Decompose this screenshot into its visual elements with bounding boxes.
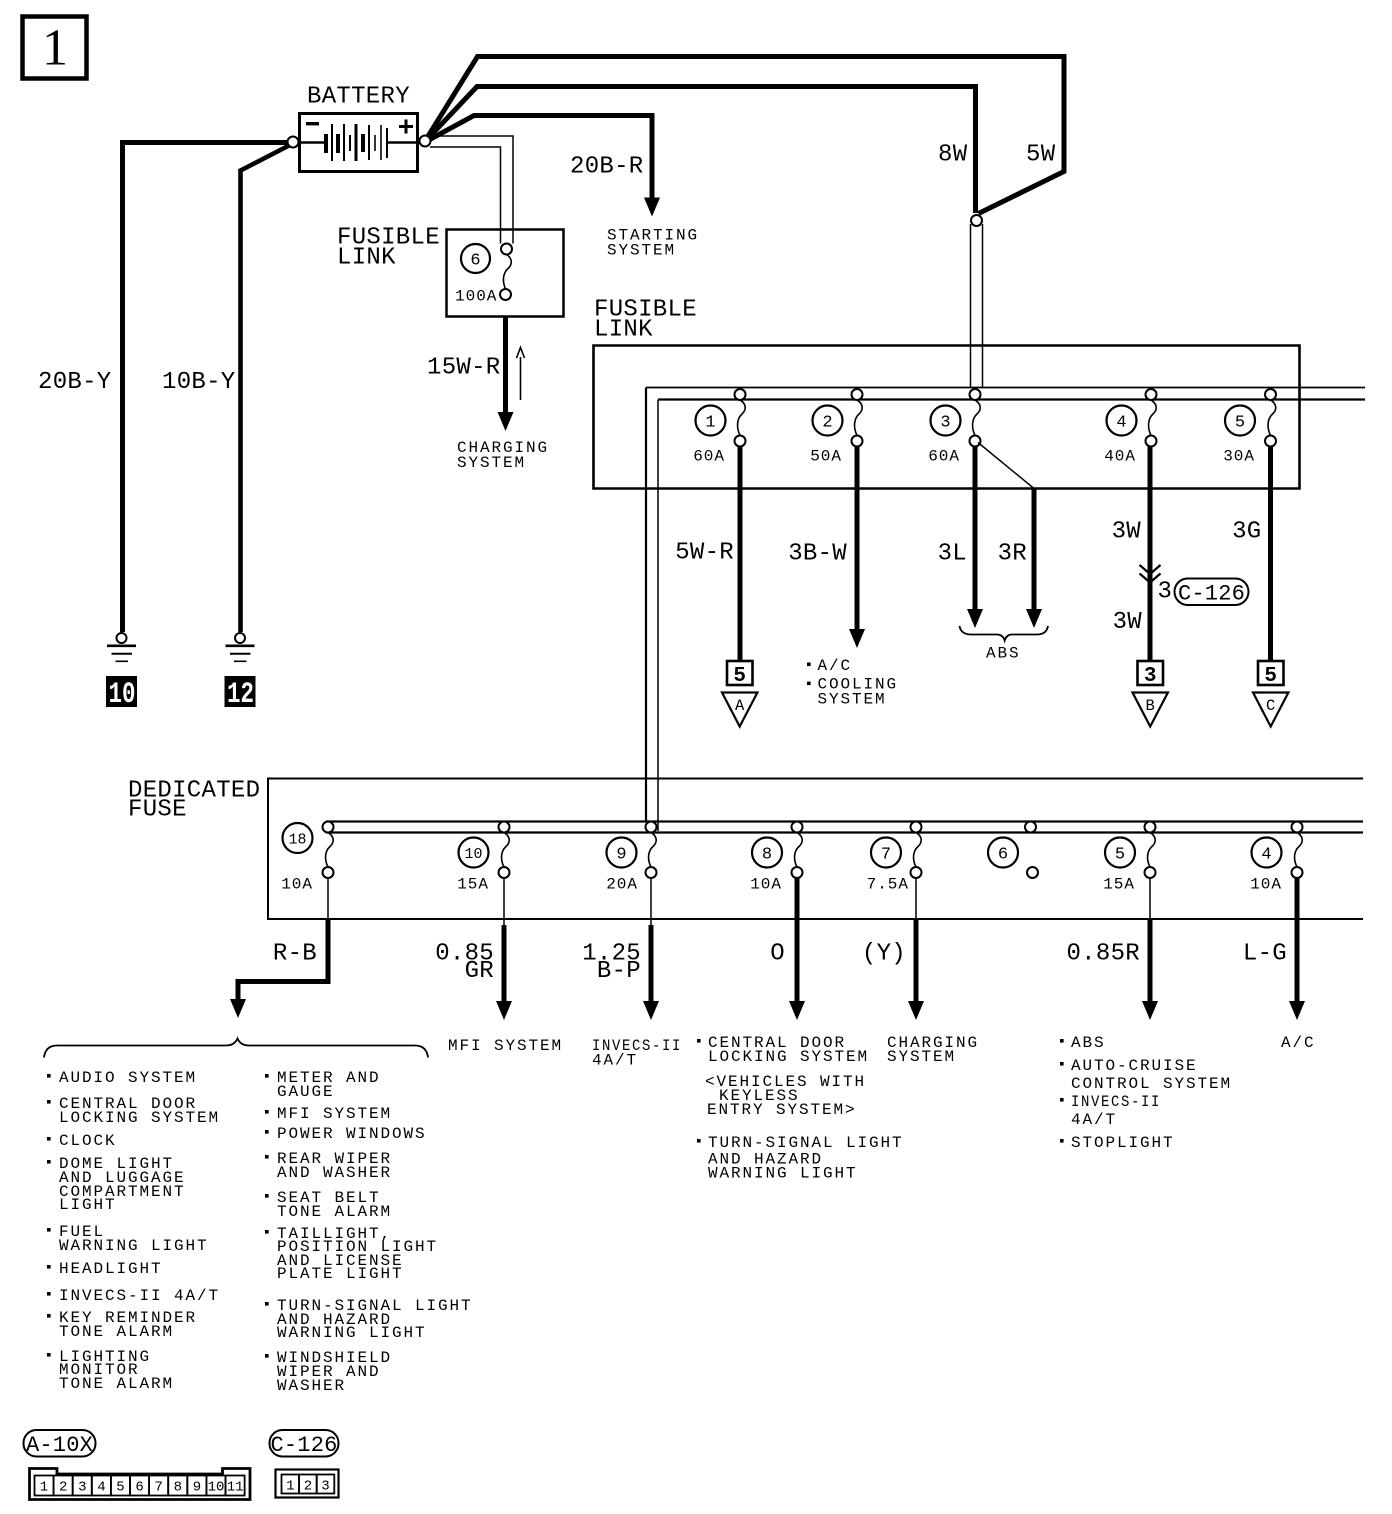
svg-text:4: 4 xyxy=(1261,846,1271,865)
battery B1 body xyxy=(300,114,418,172)
svg-text:FUSE: FUSE xyxy=(128,797,187,824)
svg-text:B: B xyxy=(1146,697,1155,715)
svg-text:C-126: C-126 xyxy=(1178,582,1245,607)
dedicated fuse 10 bottom terminal xyxy=(499,867,510,878)
dedicated fuse 5 top terminal xyxy=(1145,822,1156,833)
svg-text:5: 5 xyxy=(1235,414,1245,433)
svg-text:2: 2 xyxy=(304,1479,312,1495)
fusible link 4 bottom terminal xyxy=(1146,436,1157,447)
wire (outline pair) from 8W/5W junction down to fusible link fuse 3 xyxy=(970,224,972,388)
wire 1.25B-P from dedicated fuse 9 xyxy=(650,878,652,925)
svg-text:1: 1 xyxy=(42,20,68,77)
node: central door locking / turn signal text xyxy=(697,1039,701,1043)
dedicated fuse 7 top terminal xyxy=(911,822,922,833)
dedicated fuse 7 number circle xyxy=(871,838,901,868)
svg-text:20A: 20A xyxy=(606,876,638,894)
dedicated fuse 4 top terminal xyxy=(1292,822,1303,833)
connector box 3 (wire 3W) xyxy=(1138,661,1164,685)
svg-text:4: 4 xyxy=(97,1480,105,1496)
wire branch from fuse 3 to 3R xyxy=(978,443,1034,489)
svg-text:1: 1 xyxy=(40,1480,48,1496)
fusible link 2 element xyxy=(855,400,863,436)
svg-text:CLOCK: CLOCK xyxy=(59,1132,117,1150)
fusible link 6 element xyxy=(503,255,511,290)
triangle terminal A xyxy=(722,693,757,727)
svg-text:WASHER: WASHER xyxy=(277,1377,346,1395)
svg-text:CONTROL SYSTEM: CONTROL SYSTEM xyxy=(1071,1075,1232,1093)
dedicated fuse 7 element xyxy=(914,833,922,868)
svg-text:A/C: A/C xyxy=(1281,1034,1316,1052)
svg-text:3: 3 xyxy=(1158,579,1173,606)
svg-text:15A: 15A xyxy=(1103,876,1135,894)
svg-text:AND WASHER: AND WASHER xyxy=(277,1164,392,1182)
svg-text:GAUGE: GAUGE xyxy=(277,1083,335,1101)
svg-text:7: 7 xyxy=(154,1480,162,1496)
svg-text:SYSTEM: SYSTEM xyxy=(818,691,887,709)
svg-text:3W: 3W xyxy=(1112,519,1142,546)
dedicated fuse 8 element xyxy=(795,833,803,868)
svg-text:SYSTEM: SYSTEM xyxy=(607,242,676,260)
wire 5W-R from fusible link 1 xyxy=(738,447,743,662)
battery B1 internal plates xyxy=(301,141,417,143)
fusible link 4 element xyxy=(1149,400,1157,436)
svg-text:LOCKING SYSTEM: LOCKING SYSTEM xyxy=(708,1048,869,1066)
dedicated fuse 5 bottom terminal xyxy=(1145,867,1156,878)
svg-text:3B-W: 3B-W xyxy=(788,541,847,568)
svg-text:AUTO-CRUISE: AUTO-CRUISE xyxy=(1071,1057,1198,1075)
ground G12 symbol xyxy=(235,633,245,643)
dedicated fuse 8 top terminal xyxy=(792,822,803,833)
fusible link 3 top terminal xyxy=(970,389,981,400)
fusible link 5 element xyxy=(1268,400,1276,436)
fusible link bus lower line xyxy=(658,398,1365,400)
wire 15W-R to charging system xyxy=(503,317,508,413)
dedicated fuse 5 number circle xyxy=(1105,838,1135,868)
svg-text:POWER WINDOWS: POWER WINDOWS xyxy=(277,1125,427,1143)
dedicated fuse 4 bottom terminal xyxy=(1292,867,1303,878)
svg-text:9: 9 xyxy=(193,1480,201,1496)
svg-text:A/C: A/C xyxy=(818,657,853,675)
svg-text:15A: 15A xyxy=(457,876,489,894)
svg-text:O: O xyxy=(770,941,785,968)
svg-text:10: 10 xyxy=(208,1480,225,1496)
svg-text:7.5A: 7.5A xyxy=(867,876,909,894)
connector junction chevrons on 3W xyxy=(1140,565,1161,583)
svg-text:60A: 60A xyxy=(693,448,725,466)
battery B1 minus sign xyxy=(306,122,319,125)
fusible link 5 bottom terminal xyxy=(1265,436,1276,447)
svg-text:WARNING LIGHT: WARNING LIGHT xyxy=(708,1165,858,1183)
dedicated fuse 18 number circle xyxy=(283,823,313,853)
svg-text:18: 18 xyxy=(288,832,306,849)
node: junction of 8W and 5W wires xyxy=(971,215,982,226)
svg-text:9: 9 xyxy=(616,846,626,865)
wire Y from dedicated fuse 7 xyxy=(915,878,917,920)
ground G10 number plate xyxy=(106,676,137,707)
dedicated fuse 18 top terminal xyxy=(323,822,334,833)
connector A-10X pin cells xyxy=(35,1476,245,1496)
triangle terminal C xyxy=(1253,693,1288,727)
fusible link 1 bottom terminal xyxy=(735,436,746,447)
dedicated fuse 4 number circle xyxy=(1252,838,1282,868)
svg-text:1: 1 xyxy=(705,414,715,433)
svg-text:TONE ALARM: TONE ALARM xyxy=(59,1323,174,1341)
svg-text:8: 8 xyxy=(762,846,772,865)
svg-text:MFI SYSTEM: MFI SYSTEM xyxy=(448,1037,563,1055)
fusible link 4 top terminal xyxy=(1146,389,1157,400)
triangle terminal B xyxy=(1133,693,1168,727)
wire O from dedicated fuse 8 xyxy=(795,878,800,1002)
svg-text:10A: 10A xyxy=(281,876,313,894)
wire 10B-Y from battery negative to ground xyxy=(241,145,292,633)
svg-text:ABS: ABS xyxy=(986,645,1021,663)
svg-text:C-126: C-126 xyxy=(270,1433,337,1458)
svg-text:6: 6 xyxy=(470,252,480,271)
svg-text:10: 10 xyxy=(109,678,136,712)
fusible link 3 number circle xyxy=(931,406,961,436)
svg-text:WARNING LIGHT: WARNING LIGHT xyxy=(59,1237,209,1255)
dedicated fuse 9 bottom terminal xyxy=(646,867,657,878)
dedicated fuse 18 element xyxy=(326,833,334,868)
fusible link 2 top terminal xyxy=(852,389,863,400)
svg-text:(Y): (Y) xyxy=(862,941,906,968)
wire 0.85R from dedicated fuse 5 xyxy=(1149,878,1151,920)
svg-text:7: 7 xyxy=(881,846,891,865)
wire O arrowhead xyxy=(789,1001,805,1020)
svg-text:INVECS-II 4A/T: INVECS-II 4A/T xyxy=(59,1287,220,1305)
ground G10 symbol xyxy=(117,633,127,643)
fusible link block box xyxy=(594,346,1300,489)
fusible link 2 bottom terminal xyxy=(852,436,863,447)
dedicated fuse 10 element xyxy=(502,833,510,868)
svg-text:WARNING LIGHT: WARNING LIGHT xyxy=(277,1324,427,1342)
wire (outline pair) battery positive to fusible link 6 xyxy=(430,136,513,244)
svg-text:HEADLIGHT: HEADLIGHT xyxy=(59,1260,163,1278)
node: R-B load list column 2 xyxy=(265,1074,269,1358)
wire 0.85R arrowhead xyxy=(1142,1001,1158,1020)
svg-text:0.85R: 0.85R xyxy=(1066,941,1140,968)
svg-text:LINK: LINK xyxy=(594,317,653,344)
svg-text:3G: 3G xyxy=(1232,519,1261,546)
svg-text:3: 3 xyxy=(321,1479,329,1495)
wire R-B from dedicated fuse 18 xyxy=(327,878,329,920)
svg-text:TONE ALARM: TONE ALARM xyxy=(59,1375,174,1393)
fusible link 1 element xyxy=(738,400,746,436)
svg-text:LINK: LINK xyxy=(337,245,396,272)
svg-text:12: 12 xyxy=(227,678,254,712)
wire 8W from battery positive (second run) xyxy=(426,87,976,214)
page number box 1 xyxy=(23,17,87,79)
svg-text:3: 3 xyxy=(1144,665,1157,688)
svg-text:3W: 3W xyxy=(1113,609,1143,636)
wire 3L arrowhead xyxy=(967,609,983,628)
svg-text:SYSTEM: SYSTEM xyxy=(457,454,526,472)
wire 20B-R to starting system xyxy=(426,116,652,199)
connector A-10X stadium label xyxy=(24,1430,96,1457)
svg-text:C: C xyxy=(1266,697,1275,715)
svg-text:A: A xyxy=(735,697,745,715)
svg-text:10A: 10A xyxy=(1250,876,1282,894)
svg-text:3L: 3L xyxy=(938,541,967,568)
svg-text:5: 5 xyxy=(1264,665,1277,688)
connector C-126 body xyxy=(276,1470,339,1498)
dedicated fuse 9 number circle xyxy=(607,838,637,868)
svg-text:5W: 5W xyxy=(1026,142,1056,169)
svg-text:6: 6 xyxy=(998,846,1008,865)
wire 3B-W from fusible link 2 xyxy=(855,447,860,630)
svg-text:5: 5 xyxy=(733,665,746,688)
svg-text:50A: 50A xyxy=(810,448,842,466)
wire 20B-Y from battery negative to ground xyxy=(123,143,294,633)
svg-text:15W-R: 15W-R xyxy=(427,355,501,382)
wire L-G from dedicated fuse 4 xyxy=(1295,878,1300,1002)
dedicated fuse 6 top terminal xyxy=(1025,822,1036,833)
svg-text:ABS: ABS xyxy=(1071,1034,1106,1052)
wire 5W from battery positive (top run) xyxy=(426,57,1064,214)
svg-text:3R: 3R xyxy=(998,541,1027,568)
ground G12 number plate xyxy=(225,676,256,707)
wire Y arrowhead xyxy=(908,1001,924,1020)
dedicated fuse 6 number circle (unused position) xyxy=(988,838,1018,868)
fusible link bus upper line xyxy=(646,387,1365,389)
svg-text:4A/T: 4A/T xyxy=(1071,1111,1117,1129)
svg-text:20B-Y: 20B-Y xyxy=(38,369,112,396)
svg-text:L-G: L-G xyxy=(1243,941,1287,968)
svg-text:5: 5 xyxy=(1115,846,1125,865)
svg-text:3: 3 xyxy=(940,414,950,433)
svg-text:PLATE LIGHT: PLATE LIGHT xyxy=(277,1265,404,1283)
brace grouping 3L and 3R xyxy=(960,626,1049,641)
connector C-126 stadium label xyxy=(1175,579,1249,606)
svg-text:40A: 40A xyxy=(1104,448,1136,466)
svg-text:20B-R: 20B-R xyxy=(570,154,644,181)
wire 3W from fusible link 4 xyxy=(1148,447,1153,662)
dedicated fuse block box xyxy=(268,779,1363,920)
battery B1 plus sign xyxy=(399,120,413,134)
svg-text:4A/T: 4A/T xyxy=(592,1052,638,1070)
fusible link 6 bottom terminal xyxy=(500,289,511,300)
connector C-126 stadium label xyxy=(270,1430,339,1457)
svg-text:SYSTEM: SYSTEM xyxy=(887,1048,956,1066)
dedicated fuse 4 element xyxy=(1295,833,1303,868)
svg-text:BATTERY: BATTERY xyxy=(307,84,410,111)
svg-text:STOPLIGHT: STOPLIGHT xyxy=(1071,1134,1175,1152)
dedicated fuse 6 bottom terminal xyxy=(1027,867,1038,878)
connector C-126 pin cells xyxy=(282,1475,335,1494)
wire R-B arrowhead xyxy=(230,999,246,1018)
wire 15W-R arrowhead xyxy=(498,412,514,431)
node: A/C cooling system text xyxy=(807,663,811,667)
svg-text:8: 8 xyxy=(174,1480,182,1496)
svg-text:2: 2 xyxy=(822,414,832,433)
svg-text:AUDIO SYSTEM: AUDIO SYSTEM xyxy=(59,1069,197,1087)
battery positive terminal node xyxy=(420,136,431,147)
brace grouping R-B load list xyxy=(44,1039,428,1058)
fusible link 5 top terminal xyxy=(1265,389,1276,400)
wire 1.25B-P arrowhead xyxy=(643,1001,659,1020)
battery negative terminal node xyxy=(288,137,299,148)
node: R-B load list column 1 xyxy=(47,1074,51,1357)
dedicated fuse 8 number circle xyxy=(752,838,782,868)
wire 20B-R arrowhead xyxy=(644,198,660,217)
svg-text:8W: 8W xyxy=(938,142,968,169)
dedicated fuse 7 bottom terminal xyxy=(911,867,922,878)
svg-text:R-B: R-B xyxy=(273,941,317,968)
svg-text:5: 5 xyxy=(116,1480,124,1496)
svg-text:6: 6 xyxy=(135,1480,143,1496)
fusible link 6 box xyxy=(447,230,564,317)
svg-text:5W-R: 5W-R xyxy=(675,540,734,567)
svg-text:11: 11 xyxy=(227,1480,244,1496)
wire L-G arrowhead xyxy=(1289,1001,1305,1020)
dedicated fuse bus upper line xyxy=(326,820,1363,822)
fusible link 3 bottom terminal xyxy=(970,436,981,447)
svg-text:3: 3 xyxy=(78,1480,86,1496)
svg-text:MFI SYSTEM: MFI SYSTEM xyxy=(277,1105,392,1123)
svg-text:60A: 60A xyxy=(928,448,960,466)
fusible link 6 number circle xyxy=(461,244,490,273)
svg-text:10B-Y: 10B-Y xyxy=(162,369,236,396)
svg-text:4: 4 xyxy=(1116,414,1126,433)
fusible link 2 number circle xyxy=(813,406,843,436)
connector box 5 (wire 5W-R) xyxy=(727,661,753,685)
node: ABS / auto-cruise / invecs / stoplight text xyxy=(1060,1039,1064,1043)
fusible link 4 number circle xyxy=(1107,406,1137,436)
dedicated fuse 8 bottom terminal xyxy=(792,867,803,878)
wire (outline pair) fusible link bus down to dedicated fuse bus xyxy=(645,388,647,822)
dedicated fuse 9 element xyxy=(649,833,657,868)
svg-text:INVECS-II: INVECS-II xyxy=(1071,1093,1161,1111)
svg-text:1: 1 xyxy=(286,1479,294,1495)
connector A-10X body xyxy=(30,1469,251,1500)
fusible link 1 number circle xyxy=(696,406,726,436)
fusible link 6 top terminal xyxy=(501,244,512,255)
wire 0.85GR arrowhead xyxy=(496,1001,512,1020)
dedicated fuse 10 number circle xyxy=(459,838,489,868)
dedicated fuse 5 element xyxy=(1148,833,1156,868)
wire 3G from fusible link 5 xyxy=(1268,447,1273,662)
svg-text:TONE ALARM: TONE ALARM xyxy=(277,1203,392,1221)
svg-text:LIGHT: LIGHT xyxy=(59,1196,117,1214)
dedicated fuse bus lower line xyxy=(326,831,1363,833)
dedicated fuse 9 top terminal xyxy=(646,822,657,833)
wire 3R xyxy=(1032,489,1037,610)
fusible link 1 top terminal xyxy=(735,389,746,400)
svg-text:GR: GR xyxy=(465,958,494,985)
dedicated fuse 10 top terminal xyxy=(499,822,510,833)
svg-text:100A: 100A xyxy=(455,288,497,306)
fusible link 3 element xyxy=(973,400,981,436)
wire 3B-W arrowhead xyxy=(849,629,865,648)
wire 3L from fusible link 3 xyxy=(973,447,978,610)
svg-text:30A: 30A xyxy=(1223,448,1255,466)
wire 3R arrowhead xyxy=(1026,609,1042,628)
svg-text:10A: 10A xyxy=(750,876,782,894)
wire 0.85GR from dedicated fuse 10 xyxy=(503,878,505,925)
svg-text:TURN-SIGNAL LIGHT: TURN-SIGNAL LIGHT xyxy=(708,1134,904,1152)
connector box 5 (wire 3G) xyxy=(1258,661,1284,685)
current direction arrow xyxy=(517,348,525,401)
svg-text:ENTRY SYSTEM>: ENTRY SYSTEM> xyxy=(707,1101,857,1119)
svg-text:2: 2 xyxy=(59,1480,67,1496)
svg-text:A-10X: A-10X xyxy=(26,1433,93,1458)
svg-text:LOCKING SYSTEM: LOCKING SYSTEM xyxy=(59,1109,220,1127)
svg-text:10: 10 xyxy=(464,846,482,863)
svg-text:B-P: B-P xyxy=(597,958,641,985)
fusible link 5 number circle xyxy=(1225,406,1255,436)
dedicated fuse 18 bottom terminal xyxy=(323,867,334,878)
